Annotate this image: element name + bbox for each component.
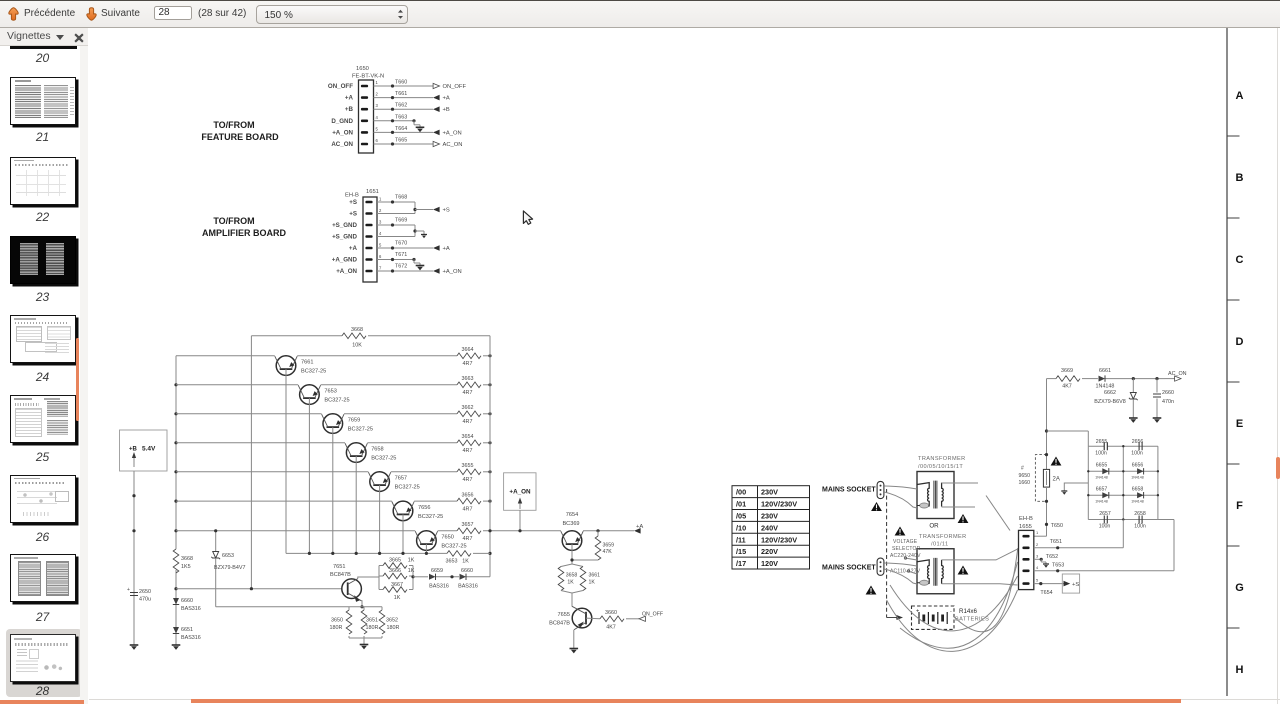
svg-text:3658: 3658	[566, 573, 578, 579]
svg-text:BAS316: BAS316	[429, 584, 449, 590]
svg-text:BAS316: BAS316	[181, 635, 201, 641]
svg-text:2658: 2658	[1134, 511, 1146, 517]
svg-text:T650: T650	[1051, 523, 1063, 529]
svg-text:2: 2	[379, 208, 382, 213]
svg-text:T668: T668	[395, 195, 407, 201]
svg-text:3662: 3662	[462, 405, 474, 411]
svg-text:+S: +S	[1072, 582, 1079, 588]
svg-text:BC327-25: BC327-25	[301, 369, 326, 375]
svg-text:BC327-25: BC327-25	[418, 514, 443, 520]
svg-text:/11: /11	[736, 535, 746, 544]
svg-text:-: -	[950, 609, 952, 615]
svg-text:180R: 180R	[387, 625, 400, 631]
svg-text:230V: 230V	[761, 488, 778, 497]
svg-text:6651: 6651	[181, 627, 193, 633]
svg-text:7658: 7658	[371, 447, 383, 453]
svg-text:180R: 180R	[366, 625, 379, 631]
svg-text:4R7: 4R7	[463, 361, 473, 367]
svg-text:4R7: 4R7	[463, 477, 473, 483]
svg-text:T654: T654	[1040, 590, 1052, 596]
svg-text:+A: +A	[349, 245, 358, 252]
svg-text:D: D	[1236, 336, 1244, 348]
svg-text:7655: 7655	[558, 612, 570, 618]
svg-text:1K: 1K	[394, 595, 401, 601]
svg-text:BC369: BC369	[562, 521, 579, 527]
svg-text:ON_OFF: ON_OFF	[328, 83, 353, 90]
svg-text:220V: 220V	[761, 547, 778, 556]
svg-text:7661: 7661	[301, 360, 313, 366]
svg-text:3651: 3651	[366, 618, 378, 624]
svg-text:7: 7	[379, 266, 382, 271]
svg-text:MAINS SOCKET: MAINS SOCKET	[822, 564, 876, 571]
svg-text:H: H	[1236, 664, 1244, 676]
svg-text:3664: 3664	[462, 347, 474, 353]
svg-text:100n: 100n	[1099, 523, 1111, 529]
svg-text:7656: 7656	[418, 505, 430, 511]
svg-text:3665: 3665	[389, 558, 401, 564]
svg-text:/01: /01	[736, 500, 746, 509]
svg-text:1K: 1K	[567, 580, 574, 586]
svg-text:100n: 100n	[1131, 451, 1143, 457]
svg-text:#: #	[1021, 466, 1024, 472]
svg-text:470u: 470u	[139, 597, 151, 603]
svg-text:T652: T652	[1046, 554, 1058, 560]
svg-text:+A: +A	[443, 96, 450, 102]
svg-text:470n: 470n	[1162, 399, 1174, 405]
svg-text:3654: 3654	[462, 434, 474, 440]
svg-text:6659: 6659	[431, 568, 443, 574]
svg-text:3668: 3668	[351, 327, 363, 333]
svg-text:3667: 3667	[391, 582, 403, 588]
svg-text:+B: +B	[345, 106, 354, 113]
svg-text:3650: 3650	[331, 618, 343, 624]
svg-text:1651: 1651	[366, 189, 379, 195]
svg-text:6656: 6656	[1132, 463, 1144, 469]
svg-text:3666: 3666	[389, 568, 401, 574]
svg-text:2A: 2A	[1053, 477, 1060, 483]
svg-text:+S: +S	[349, 211, 357, 218]
svg-text:6660: 6660	[181, 598, 193, 604]
svg-text:2657: 2657	[1099, 511, 1111, 517]
svg-text:180R: 180R	[330, 625, 343, 631]
svg-text:6661: 6661	[1099, 368, 1111, 374]
svg-text:ON_OFF: ON_OFF	[443, 84, 467, 90]
svg-text:1655: 1655	[1019, 524, 1032, 530]
svg-text:+A_GND: +A_GND	[332, 257, 358, 264]
svg-text:7654: 7654	[566, 512, 578, 518]
svg-text:+S: +S	[349, 199, 357, 206]
svg-text:BZX79-B4V7: BZX79-B4V7	[214, 565, 245, 571]
svg-text:T661: T661	[395, 91, 407, 97]
svg-text:1N4148: 1N4148	[1096, 384, 1115, 390]
svg-text:2: 2	[1036, 542, 1039, 547]
svg-text:7657: 7657	[395, 476, 407, 482]
svg-text:TO/FROM: TO/FROM	[213, 216, 254, 226]
svg-text:+A: +A	[443, 246, 450, 252]
svg-text:6: 6	[376, 138, 379, 143]
svg-text:1650: 1650	[356, 66, 369, 72]
svg-text:AC_ON: AC_ON	[331, 141, 353, 148]
svg-text:6655: 6655	[1096, 463, 1108, 469]
svg-text:3: 3	[376, 103, 379, 108]
svg-text:4R7: 4R7	[463, 506, 473, 512]
svg-text:5: 5	[379, 243, 382, 248]
svg-text:3: 3	[1036, 553, 1039, 558]
svg-text:TRANSFORMER: TRANSFORMER	[918, 456, 966, 462]
svg-text:7651: 7651	[333, 564, 345, 570]
svg-text:3653: 3653	[446, 559, 458, 565]
svg-text:T660: T660	[395, 80, 407, 86]
svg-text:BC847B: BC847B	[549, 621, 570, 627]
svg-text:1: 1	[1036, 530, 1039, 535]
svg-text:/17: /17	[736, 559, 746, 568]
svg-text:F: F	[1236, 500, 1243, 512]
svg-text:OR: OR	[929, 523, 939, 530]
svg-text:C: C	[1236, 254, 1244, 266]
svg-text:120V: 120V	[761, 559, 778, 568]
svg-text:+S_GND: +S_GND	[332, 222, 357, 229]
svg-text:AC_ON: AC_ON	[443, 142, 463, 148]
svg-text:T664: T664	[395, 126, 407, 132]
svg-text:/15: /15	[736, 547, 746, 556]
svg-text:3657: 3657	[462, 522, 474, 528]
svg-text:AMPLIFIER BOARD: AMPLIFIER BOARD	[202, 228, 286, 238]
svg-text:TO/FROM: TO/FROM	[213, 120, 254, 130]
svg-text:5: 5	[376, 126, 379, 131]
svg-text:3: 3	[379, 220, 382, 225]
svg-text:+A_ON: +A_ON	[509, 489, 531, 496]
svg-text:BZX79-B6V8: BZX79-B6V8	[1094, 399, 1125, 405]
svg-text:EH-B: EH-B	[1019, 516, 1033, 522]
svg-text:6653: 6653	[222, 553, 234, 559]
svg-text:4K7: 4K7	[1062, 384, 1072, 390]
svg-text:1660: 1660	[1019, 480, 1031, 486]
svg-text:4R7: 4R7	[463, 390, 473, 396]
svg-text:+: +	[127, 587, 130, 593]
svg-text:/05: /05	[736, 512, 746, 521]
svg-text:/10: /10	[736, 523, 746, 532]
svg-text:+B: +B	[129, 447, 138, 453]
svg-text:6: 6	[379, 254, 382, 259]
svg-text:230V: 230V	[761, 512, 778, 521]
svg-text:3663: 3663	[462, 376, 474, 382]
svg-text:+S: +S	[443, 208, 450, 214]
svg-text:T662: T662	[395, 103, 407, 109]
svg-text:7653: 7653	[324, 389, 336, 395]
svg-text:6662: 6662	[1104, 390, 1116, 396]
svg-text:1N4148: 1N4148	[1131, 476, 1144, 480]
svg-text:+A_ON: +A_ON	[443, 130, 462, 136]
svg-text:BC327-25: BC327-25	[371, 456, 396, 462]
svg-text:BC327-25: BC327-25	[395, 485, 420, 491]
svg-text:1K: 1K	[408, 558, 415, 564]
svg-text:+S_GND: +S_GND	[332, 234, 357, 241]
svg-text:+A: +A	[345, 95, 354, 102]
svg-text:2656: 2656	[1132, 439, 1144, 445]
svg-text:1K: 1K	[462, 559, 469, 565]
svg-text:3659: 3659	[603, 543, 615, 549]
svg-text:SELECTOR: SELECTOR	[892, 546, 921, 552]
svg-text:1: 1	[379, 197, 382, 202]
svg-text:1: 1	[376, 80, 379, 85]
svg-text:7650: 7650	[441, 535, 453, 541]
svg-text:3661: 3661	[589, 573, 601, 579]
svg-text:+A_ON: +A_ON	[336, 268, 357, 275]
svg-text:ON_OFF: ON_OFF	[642, 612, 663, 618]
svg-text:3655: 3655	[462, 463, 474, 469]
svg-text:3652: 3652	[386, 618, 398, 624]
svg-text:9650: 9650	[1019, 473, 1031, 479]
svg-text:4R7: 4R7	[463, 448, 473, 454]
svg-text:2655: 2655	[1096, 439, 1108, 445]
svg-text:VOLTAGE: VOLTAGE	[893, 539, 918, 545]
svg-text:6660: 6660	[461, 568, 473, 574]
svg-text:6658: 6658	[1132, 487, 1144, 493]
svg-text:T663: T663	[395, 114, 407, 120]
svg-text:BAS316: BAS316	[458, 584, 478, 590]
svg-text:5.4V: 5.4V	[142, 446, 156, 453]
svg-text:4: 4	[379, 231, 382, 236]
svg-text:BC847B: BC847B	[330, 572, 351, 578]
svg-text:120V/230V: 120V/230V	[761, 500, 797, 509]
svg-text:T653: T653	[1052, 563, 1064, 569]
svg-text:3660: 3660	[605, 610, 617, 616]
svg-text:T672: T672	[395, 264, 407, 270]
svg-text:EH-B: EH-B	[345, 193, 359, 199]
svg-text:/01/11: /01/11	[931, 542, 949, 548]
svg-text:BC327-25: BC327-25	[324, 398, 349, 404]
svg-text:6657: 6657	[1096, 487, 1108, 493]
svg-text:G: G	[1235, 582, 1244, 594]
svg-text:FEATURE BOARD: FEATURE BOARD	[201, 132, 279, 142]
svg-text:/00: /00	[736, 488, 746, 497]
svg-text:1N4148: 1N4148	[1131, 500, 1144, 504]
svg-text:100n: 100n	[1095, 451, 1107, 457]
svg-text:1N4148: 1N4148	[1095, 500, 1108, 504]
svg-text:2660: 2660	[1162, 390, 1174, 396]
svg-text:+A_ON: +A_ON	[443, 269, 462, 275]
svg-text:1K5: 1K5	[181, 564, 191, 570]
svg-text:BC327-25: BC327-25	[441, 544, 466, 550]
svg-text:1K: 1K	[408, 568, 415, 574]
svg-text:+A: +A	[636, 524, 643, 530]
svg-text:T671: T671	[395, 252, 407, 258]
svg-text:5: 5	[1036, 578, 1039, 583]
svg-text:3669: 3669	[1061, 368, 1073, 374]
svg-text:/00/05/10/15/1T: /00/05/10/15/1T	[918, 464, 963, 470]
svg-text:4R7: 4R7	[463, 536, 473, 542]
svg-text:AC_ON: AC_ON	[1168, 371, 1187, 377]
svg-text:3668: 3668	[181, 556, 193, 562]
svg-text:120V/230V: 120V/230V	[761, 535, 797, 544]
svg-text:4: 4	[1036, 565, 1039, 570]
svg-text:7659: 7659	[348, 418, 360, 424]
svg-text:240V: 240V	[761, 523, 778, 532]
svg-text:+A_ON: +A_ON	[332, 129, 353, 136]
svg-text:TRANSFORMER: TRANSFORMER	[919, 534, 967, 540]
svg-text:100n: 100n	[1134, 523, 1146, 529]
svg-text:D_GND: D_GND	[331, 118, 353, 125]
svg-text:BC327-25: BC327-25	[348, 427, 373, 433]
svg-text:4K7: 4K7	[606, 625, 616, 631]
svg-text:1N4148: 1N4148	[1095, 476, 1108, 480]
svg-text:BAS316: BAS316	[181, 606, 201, 612]
svg-text:3656: 3656	[462, 492, 474, 498]
svg-text:MAINS SOCKET: MAINS SOCKET	[822, 487, 876, 494]
svg-text:4R7: 4R7	[463, 419, 473, 425]
svg-text:+B: +B	[443, 107, 450, 113]
svg-text:R14x6: R14x6	[959, 608, 977, 615]
svg-text:FE-BT-VK-N: FE-BT-VK-N	[352, 74, 384, 80]
svg-text:E: E	[1236, 418, 1243, 430]
svg-text:A: A	[1236, 90, 1244, 102]
svg-text:1K: 1K	[589, 580, 596, 586]
svg-text:4: 4	[376, 115, 379, 120]
svg-text:T651: T651	[1050, 539, 1062, 545]
svg-text:T670: T670	[395, 241, 407, 247]
svg-text:47K: 47K	[603, 549, 613, 555]
svg-text:B: B	[1236, 172, 1244, 184]
svg-text:2: 2	[376, 92, 379, 97]
svg-text:10K: 10K	[352, 343, 362, 349]
svg-text:T669: T669	[395, 218, 407, 224]
svg-text:T665: T665	[395, 138, 407, 144]
svg-text:2650: 2650	[139, 589, 151, 595]
